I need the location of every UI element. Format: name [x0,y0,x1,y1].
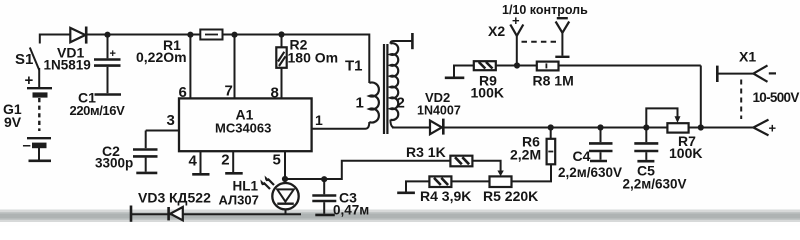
svg-text:R8 1M: R8 1M [533,73,574,89]
svg-text:1N4007: 1N4007 [417,104,461,118]
svg-text:100K: 100K [669,145,702,161]
svg-text:X1: X1 [739,49,756,65]
svg-text:0,22Om: 0,22Om [136,49,187,65]
svg-text:1: 1 [315,112,323,128]
svg-text:8: 8 [271,85,279,102]
svg-text:R3 1K: R3 1K [406,144,446,160]
svg-text:2,2м/630V: 2,2м/630V [558,165,622,180]
svg-text:КД522: КД522 [169,190,211,206]
svg-text:S1: S1 [15,51,33,68]
svg-text:MC34063: MC34063 [215,121,271,136]
svg-text:6: 6 [179,84,187,101]
svg-text:–: – [23,137,31,154]
svg-text:2: 2 [397,95,405,112]
svg-text:1N5819: 1N5819 [44,58,91,73]
svg-text:100K: 100K [471,85,504,101]
svg-text:220м/16V: 220м/16V [70,103,126,118]
svg-text:+: + [25,72,34,89]
svg-text:R5 220K: R5 220K [483,188,538,204]
svg-text:+: + [110,48,116,60]
svg-text:10-500V: 10-500V [753,90,800,105]
svg-text:АЛ307: АЛ307 [219,193,259,208]
svg-text:2,2м/630V: 2,2м/630V [623,177,687,192]
svg-text:1: 1 [356,95,364,112]
svg-text:T1: T1 [345,58,363,75]
svg-text:2,2M: 2,2M [510,147,541,163]
svg-text:2: 2 [221,152,229,169]
svg-text:+: + [769,121,777,136]
svg-text:C4: C4 [573,148,591,164]
svg-text:3300p: 3300p [95,156,133,171]
svg-text:3: 3 [167,112,175,129]
svg-text:+: + [512,13,520,28]
svg-text:Х2: Х2 [488,23,505,39]
svg-text:HL1: HL1 [233,179,259,194]
svg-text:9V: 9V [4,114,22,130]
svg-text:180 Om: 180 Om [288,50,339,66]
svg-text:R4 3,9K: R4 3,9K [420,188,471,204]
svg-text:4: 4 [189,153,198,170]
svg-text:7: 7 [225,83,233,100]
svg-text:0,47м: 0,47м [333,203,369,218]
svg-text:5: 5 [273,152,281,169]
svg-text:VD3: VD3 [138,190,165,206]
